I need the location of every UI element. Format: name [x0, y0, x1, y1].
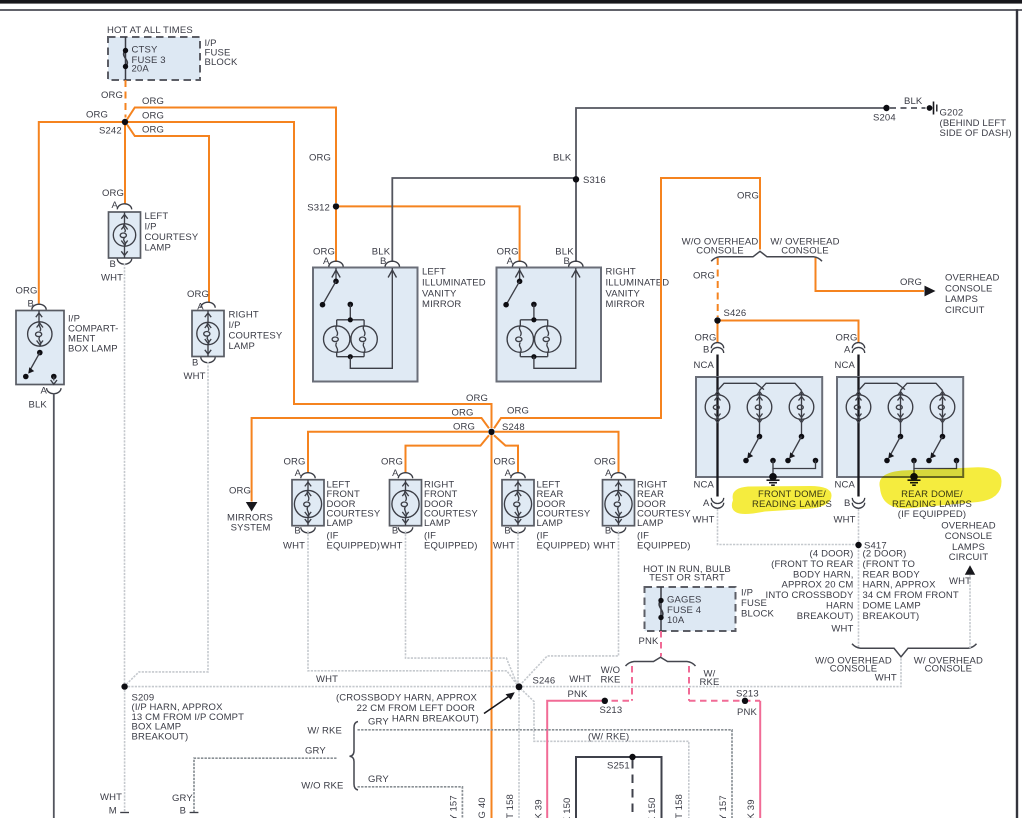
svg-text:ORG 40: ORG 40 [477, 797, 488, 818]
svg-text:NCA: NCA [835, 480, 856, 491]
right I/P courtesy lamp bulb [197, 311, 219, 357]
svg-text:HOT AT ALL TIMES: HOT AT ALL TIMES [107, 25, 193, 36]
svg-text:PNK: PNK [639, 636, 659, 647]
svg-text:ILLUMINATED: ILLUMINATED [606, 277, 670, 288]
svg-text:(FRONT TO REAR: (FRONT TO REAR [771, 559, 853, 570]
wire ORG S242 to right I/P courtesy lamp pin A [127, 125, 209, 303]
splice S213 (right) [742, 698, 748, 704]
svg-text:MIRROR: MIRROR [606, 299, 645, 310]
svg-text:CONSOLE: CONSOLE [696, 246, 744, 257]
highlight front dome/reading lamps [732, 486, 832, 514]
svg-text:GRY 157: GRY 157 [718, 795, 729, 818]
svg-text:(4 DOOR): (4 DOOR) [810, 549, 854, 560]
wire BLK I/P compartment box lamp pin A down [53, 393, 55, 818]
wire WHT rear dome lamp through S417 to brace [858, 509, 860, 648]
svg-text:BREAKOUT): BREAKOUT) [797, 611, 854, 622]
svg-text:(2 DOOR): (2 DOOR) [863, 549, 907, 560]
left rear door courtesy lamp box [502, 480, 534, 526]
right front door courtesy lamp box [390, 480, 422, 526]
front dome/reading lamps ground [772, 469, 774, 478]
svg-text:WHT: WHT [831, 624, 853, 635]
svg-text:NCA: NCA [835, 360, 856, 371]
svg-text:WHT: WHT [834, 515, 856, 526]
svg-text:S242: S242 [99, 126, 122, 137]
front dome/reading lamps switches [757, 434, 763, 440]
I/P compartment box lamp [16, 311, 64, 385]
svg-text:ILLUMINATED: ILLUMINATED [422, 277, 486, 288]
I/P compartment box lamp switch [37, 350, 43, 356]
svg-text:VANITY: VANITY [422, 288, 457, 299]
wire WHT S246 W/RKE branch (circuit 158) [521, 689, 689, 818]
svg-text:S248: S248 [502, 422, 525, 433]
svg-text:ORG: ORG [102, 188, 124, 199]
svg-text:ORG: ORG [453, 422, 475, 433]
svg-text:B: B [294, 526, 301, 537]
wire WHT front dome lamp to S417 [718, 509, 856, 545]
splice S246 [516, 683, 523, 690]
wire BLK S316 up to S204 [576, 108, 887, 179]
splice S417 [855, 542, 861, 548]
svg-text:A: A [703, 498, 710, 509]
wire GRY W/O RKE branch (circuit 157) [358, 787, 463, 818]
svg-text:REAR BODY: REAR BODY [863, 569, 921, 580]
svg-text:B: B [504, 526, 511, 537]
svg-text:LAMPS: LAMPS [945, 294, 978, 305]
svg-text:RKE: RKE [601, 674, 621, 685]
wire BLK left vanity mirror pin B to S316 [392, 178, 576, 262]
right rear door courtesy lamp bulb [605, 480, 632, 526]
svg-text:SIDE OF DASH): SIDE OF DASH) [940, 128, 1012, 139]
wire WHT S246 down (circuit 158) [518, 687, 520, 818]
left front door courtesy lamp box [292, 480, 324, 526]
svg-text:GRY: GRY [368, 774, 389, 785]
svg-text:WHT: WHT [381, 540, 403, 551]
svg-text:TEST OR START: TEST OR START [649, 573, 725, 584]
svg-text:NCA: NCA [694, 360, 715, 371]
svg-text:ORG: ORG [86, 110, 108, 121]
wire WHT right rear door lamp to S246 [521, 531, 619, 684]
svg-text:S312: S312 [307, 203, 330, 214]
front dome/reading lamps switch common contacts [770, 458, 776, 464]
front dome/reading lamps bulbs [716, 377, 718, 477]
svg-text:RIGHT: RIGHT [606, 267, 636, 278]
svg-text:I/P: I/P [229, 320, 241, 331]
svg-text:LAMP: LAMP [537, 518, 563, 529]
svg-text:10A: 10A [667, 615, 685, 626]
brace W/O / W RKE [626, 657, 696, 666]
right illuminated vanity mirror pin B internal wire [534, 268, 576, 368]
wire ORG S242 to S312 (top run) [127, 108, 336, 204]
svg-text:SYSTEM: SYSTEM [231, 523, 271, 534]
svg-text:BLOCK: BLOCK [741, 609, 774, 620]
wire BLK S316 to right vanity mirror pin B [575, 179, 577, 262]
svg-text:B: B [180, 806, 187, 817]
wire PNK S213 right down (circuit 39) [759, 701, 761, 818]
svg-text:ORG: ORG [284, 456, 306, 467]
svg-text:HARN: HARN [826, 601, 854, 612]
splice S248 [488, 429, 494, 435]
wire WHT left rear door lamp to S246 [517, 531, 519, 683]
svg-text:PNK 39: PNK 39 [746, 799, 757, 818]
wire WHT right front door lamp to S246 [406, 531, 518, 684]
svg-text:INTO CROSSBODY: INTO CROSSBODY [766, 590, 854, 601]
svg-text:LAMP: LAMP [637, 518, 663, 529]
splice S312 [333, 203, 339, 209]
wire GRY bottom pin B up to RKE split brace [194, 758, 337, 812]
svg-text:S426: S426 [724, 308, 747, 319]
splice S209 [121, 683, 127, 689]
svg-text:ORG: ORG [594, 456, 616, 467]
svg-text:WHT 158: WHT 158 [674, 794, 685, 818]
left illuminated vanity mirror bulbs [348, 302, 354, 308]
I/P fuse block (GAGES) [645, 587, 736, 631]
svg-text:BREAKOUT): BREAKOUT) [863, 611, 920, 622]
wire ORG S248 down (circuit 40) [491, 435, 493, 818]
svg-text:EQUIPPED): EQUIPPED) [424, 541, 478, 552]
rear dome/reading lamps switches [898, 434, 904, 440]
wire BLK dashed S204 to G202 [890, 107, 926, 109]
svg-text:S316: S316 [583, 175, 606, 186]
svg-text:WHT: WHT [693, 515, 715, 526]
svg-text:ORG: ORG [381, 456, 403, 467]
right illuminated vanity mirror [497, 268, 602, 382]
svg-text:CIRCUIT: CIRCUIT [945, 305, 985, 316]
svg-text:RIGHT: RIGHT [229, 309, 259, 320]
svg-text:WHT: WHT [949, 576, 971, 587]
svg-text:APPROX 20 CM: APPROX 20 CM [781, 580, 853, 591]
svg-text:CTSY: CTSY [132, 45, 158, 56]
left I/P courtesy lamp bulb [113, 212, 135, 258]
svg-text:CONSOLE: CONSOLE [945, 531, 993, 542]
rear dome/reading lamps box [837, 377, 963, 477]
svg-text:ORG: ORG [452, 408, 474, 419]
svg-text:WHT: WHT [184, 371, 206, 382]
svg-text:B: B [110, 259, 117, 270]
svg-text:ORG: ORG [466, 393, 488, 404]
svg-text:ORG: ORG [695, 333, 717, 344]
svg-text:20A: 20A [132, 64, 150, 75]
svg-text:ORG: ORG [142, 111, 164, 122]
svg-text:ORG: ORG [16, 286, 38, 297]
front dome/reading lamps bottom connector [716, 477, 718, 497]
svg-text:LEFT: LEFT [145, 211, 169, 222]
svg-text:BLK 150: BLK 150 [647, 798, 658, 818]
right illuminated vanity mirror switch [519, 268, 521, 281]
I/P fuse block (top) [108, 37, 200, 80]
svg-text:B: B [703, 344, 710, 355]
brace W/O / W OVERHEAD CONSOLE (top) [711, 251, 822, 261]
svg-text:COURTESY: COURTESY [145, 232, 199, 243]
splice S204 [883, 105, 889, 111]
svg-text:(IF EQUIPPED): (IF EQUIPPED) [898, 509, 966, 520]
svg-text:(W/ RKE): (W/ RKE) [588, 732, 629, 743]
svg-text:WHT: WHT [101, 273, 123, 284]
svg-text:DOME LAMP: DOME LAMP [863, 601, 921, 612]
svg-text:ORG: ORG [309, 153, 331, 164]
rear dome/reading lamps bottom connector [857, 477, 859, 497]
front dome/reading lamps box [696, 377, 822, 477]
svg-text:B: B [392, 526, 399, 537]
svg-text:W/ RKE: W/ RKE [307, 726, 342, 737]
wire ORG S242 to I/P compartment box lamp pin B [39, 122, 122, 304]
svg-text:MIRROR: MIRROR [422, 299, 461, 310]
svg-text:BLOCK: BLOCK [205, 57, 238, 68]
svg-text:NCA: NCA [694, 480, 715, 491]
wire ORG S242 to S248 (via x294) [128, 122, 492, 428]
svg-text:LAMP: LAMP [145, 243, 171, 254]
svg-text:ORG: ORG [229, 486, 251, 497]
wire WHT left front door lamp to S246 [308, 531, 518, 685]
wire ORG S248 to left rear door lamp [494, 435, 518, 473]
svg-text:B: B [605, 526, 612, 537]
left illuminated vanity mirror switch [335, 268, 337, 281]
svg-text:GRY: GRY [368, 717, 389, 728]
svg-text:ORG: ORG [494, 456, 516, 467]
svg-text:HARN BREAKOUT): HARN BREAKOUT) [392, 713, 479, 724]
svg-text:VANITY: VANITY [606, 288, 641, 299]
svg-text:S213: S213 [600, 705, 623, 716]
svg-text:PNK: PNK [737, 707, 757, 718]
svg-text:ORG: ORG [507, 406, 529, 417]
arrow to overhead console lamps circuit [925, 286, 936, 297]
svg-text:ORG: ORG [836, 333, 858, 344]
wire ORG S248 to right front door lamp [406, 435, 490, 473]
svg-text:BREAKOUT): BREAKOUT) [132, 731, 189, 742]
I/P compartment box lamp bulb [38, 311, 40, 323]
wire ORG S312 to right vanity mirror pin A [336, 206, 520, 262]
svg-text:WHT: WHT [316, 674, 338, 685]
wire ORG S242 down to left I/P courtesy lamp pin A [124, 124, 126, 204]
svg-text:EQUIPPED): EQUIPPED) [637, 541, 691, 552]
svg-text:OVERHEAD: OVERHEAD [945, 273, 1000, 284]
left rear door courtesy lamp bulb [504, 480, 531, 526]
svg-text:W/O RKE: W/O RKE [301, 780, 343, 791]
splice S242 [122, 119, 128, 125]
svg-text:GRY 157: GRY 157 [449, 795, 460, 818]
svg-text:BODY HARN,: BODY HARN, [793, 569, 853, 580]
wire PNK dashed fuse4 to RKE brace [660, 631, 662, 657]
svg-text:WHT: WHT [569, 674, 591, 685]
wire PNK dashed brace left leg to S213 [606, 666, 632, 701]
svg-text:CONSOLE: CONSOLE [945, 283, 993, 294]
wire ORG S248 to mirrors system [252, 418, 489, 502]
svg-text:HARN, APPROX: HARN, APPROX [863, 580, 937, 591]
right I/P courtesy lamp box [192, 311, 224, 357]
splice S316 [573, 176, 579, 182]
wire WHT bus S209 to S246 to overhead brace [125, 658, 901, 687]
svg-text:ORG: ORG [693, 271, 715, 282]
wire ORG S426 to rear dome pin A [718, 321, 859, 344]
svg-text:B: B [28, 299, 35, 310]
splice S213 (left) [602, 698, 608, 704]
svg-text:BLK 150: BLK 150 [562, 798, 573, 818]
wire PNK S213 left down (circuit 39) [547, 701, 605, 818]
wire WHT S209 down to pin M [124, 687, 126, 812]
svg-text:22 CM FROM LEFT DOOR: 22 CM FROM LEFT DOOR [357, 703, 475, 714]
svg-text:RKE: RKE [700, 677, 720, 688]
svg-text:I/P: I/P [741, 588, 753, 599]
svg-text:FUSE: FUSE [741, 598, 767, 609]
svg-text:ORG: ORG [101, 90, 123, 101]
svg-text:CONSOLE: CONSOLE [781, 246, 829, 257]
svg-text:S213: S213 [736, 688, 759, 699]
svg-text:WHT: WHT [875, 673, 897, 684]
left front door courtesy lamp bulb [294, 480, 321, 526]
svg-text:S204: S204 [873, 113, 896, 124]
pin B connector (I/P compartment box lamp) [32, 304, 46, 310]
svg-text:A: A [844, 344, 851, 355]
fuse CTSY FUSE 3 20A [125, 37, 127, 80]
wire ORG S248 to right rear door lamp [495, 432, 619, 473]
svg-text:A: A [41, 386, 48, 397]
svg-text:LAMP: LAMP [424, 518, 450, 529]
svg-text:B: B [844, 498, 851, 509]
svg-text:BOX LAMP: BOX LAMP [68, 344, 118, 355]
wire WHT left I/P courtesy lamp to S209 [124, 264, 126, 684]
wire GRY W/RKE branch (circuit 157) [358, 730, 733, 818]
svg-text:LEFT: LEFT [422, 267, 446, 278]
wire WHT right I/P courtesy lamp to S209 [125, 362, 208, 686]
svg-text:CONSOLE: CONSOLE [925, 664, 973, 675]
svg-text:OVERHEAD: OVERHEAD [941, 521, 996, 532]
wire WHT brace to overhead console lamps circuit arrow [969, 575, 971, 648]
wire ORG S426 to front dome pin B [717, 321, 719, 344]
svg-text:COURTESY: COURTESY [229, 331, 283, 342]
svg-text:WHT: WHT [283, 540, 305, 551]
splice S251 and BLK wires [576, 757, 662, 818]
svg-text:ORG: ORG [142, 125, 164, 136]
svg-text:ORG: ORG [737, 191, 759, 202]
wire ORG S312 to left vanity mirror pin A [335, 206, 337, 262]
svg-text:ORG: ORG [187, 289, 209, 300]
svg-text:GRY: GRY [305, 746, 326, 757]
svg-text:34 CM FROM FRONT: 34 CM FROM FRONT [863, 590, 959, 601]
svg-text:S251: S251 [607, 761, 630, 772]
svg-text:BLK: BLK [904, 96, 923, 107]
svg-text:B: B [192, 357, 199, 368]
annotation arrow to S246 [484, 695, 511, 713]
svg-text:GAGES: GAGES [667, 594, 702, 605]
svg-text:PNK 39: PNK 39 [533, 799, 544, 818]
right front door courtesy lamp bulb [392, 480, 419, 526]
svg-text:LAMP: LAMP [327, 518, 353, 529]
wire ORG brace to overhead console lamps circuit arrow [816, 258, 925, 291]
ground G202 [927, 105, 933, 111]
svg-text:LAMP: LAMP [229, 341, 255, 352]
wire ORG fuse3 to S242 (dashed) [125, 80, 127, 118]
svg-text:I/P: I/P [145, 221, 157, 232]
rear dome/reading lamps bulbs [857, 377, 859, 477]
svg-text:GRY: GRY [172, 793, 193, 804]
svg-text:WHT 158: WHT 158 [505, 794, 516, 818]
wire ORG S248 to left front door lamp [308, 432, 488, 473]
wire ORG S248 to overhead console brace (bracket) [494, 178, 760, 428]
arrow to mirrors system [246, 502, 258, 512]
wire BLK dashed S251 down [632, 760, 634, 818]
wire ORG dashed brace to S426 [717, 258, 719, 317]
arrow up to overhead console lamps circuit [965, 565, 975, 575]
svg-text:ORG: ORG [900, 277, 922, 288]
rear dome/reading lamps switch common contacts [911, 458, 917, 464]
left I/P courtesy lamp box [109, 212, 141, 258]
svg-text:S246: S246 [533, 676, 556, 687]
svg-text:WHT: WHT [493, 540, 515, 551]
svg-text:ORG: ORG [142, 96, 164, 107]
right illuminated vanity mirror bulbs [531, 302, 537, 308]
svg-text:EQUIPPED): EQUIPPED) [537, 541, 591, 552]
svg-text:PNK: PNK [568, 689, 588, 700]
brace GRY W-RKE split [350, 722, 359, 791]
svg-text:(FRONT TO: (FRONT TO [863, 559, 916, 570]
svg-text:(CROSSBODY HARN, APPROX: (CROSSBODY HARN, APPROX [336, 692, 478, 703]
svg-text:M: M [109, 806, 117, 817]
svg-text:CIRCUIT: CIRCUIT [949, 552, 989, 563]
fuse GAGES FUSE 4 10A [660, 587, 662, 631]
svg-text:WHT: WHT [594, 540, 616, 551]
svg-text:WHT: WHT [100, 792, 122, 803]
wire PNK dashed brace right leg to S213 right [689, 666, 760, 701]
svg-text:CONSOLE: CONSOLE [830, 664, 878, 675]
svg-text:BLK: BLK [29, 400, 48, 411]
svg-text:BLK: BLK [553, 153, 572, 164]
left illuminated vanity mirror pin B internal wire [350, 268, 392, 368]
rear dome/reading lamps ground [913, 469, 915, 478]
svg-text:EQUIPPED): EQUIPPED) [327, 541, 381, 552]
brace W/O / W OVERHEAD CONSOLE (bottom) [852, 644, 977, 657]
right rear door courtesy lamp box [603, 480, 635, 526]
left illuminated vanity mirror [313, 268, 418, 382]
highlight rear dome/reading lamps [879, 467, 1001, 508]
